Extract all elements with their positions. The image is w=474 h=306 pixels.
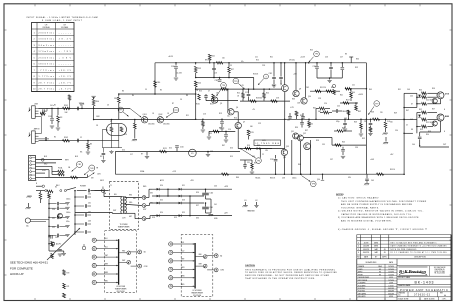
ground above R104 bbox=[91, 95, 95, 97]
resistor R132 bbox=[417, 112, 421, 114]
wire y145.1 row bbox=[332, 144, 366, 146]
wire top rail V+ bbox=[155, 62, 366, 64]
svg-text:HOOK-UP: HOOK-UP bbox=[10, 272, 24, 276]
svg-text:TP1: TP1 bbox=[119, 110, 122, 112]
tube V1 center rod bbox=[118, 124, 120, 136]
wire left rail drop bbox=[154, 63, 156, 94]
capacitor C111 bbox=[219, 78, 221, 80]
diode D4 bbox=[157, 214, 160, 217]
resistor R117 bbox=[212, 94, 215, 100]
wire sub-rail y78 bbox=[317, 77, 342, 79]
below bus cap C152 bbox=[301, 119, 303, 122]
taps on x75 bbox=[74, 196, 76, 198]
input cap C2 inline bbox=[76, 139, 78, 143]
cap taps on x49 bbox=[48, 203, 50, 205]
wire main bus AB bbox=[94, 119, 196, 121]
wire J1 pin4 down bbox=[39, 116, 42, 118]
wire node row y94 bbox=[119, 93, 196, 95]
diode D6 bbox=[179, 195, 182, 198]
resistor R116 bbox=[198, 94, 201, 100]
wire y137.5 to right bbox=[303, 137, 332, 139]
capacitor C114 on bus bbox=[221, 119, 223, 121]
speaker block A jack 5 bbox=[92, 272, 96, 276]
bus res pair R161 bbox=[319, 107, 325, 110]
wire rail2 drop bbox=[253, 78, 255, 90]
wire y133.3 stub bbox=[404, 132, 413, 134]
test point TP10 bbox=[264, 74, 269, 79]
resistor R120 inline bbox=[335, 144, 342, 147]
wire J1 to Q101 arrow bbox=[94, 108, 130, 110]
resistor chain y131 row bbox=[213, 130, 219, 133]
resistor R129 bbox=[422, 92, 427, 95]
tube V1 element 2 bbox=[120, 127, 123, 132]
svg-text:TP3: TP3 bbox=[234, 81, 237, 83]
capacitor C112b bbox=[280, 63, 282, 77]
capacitor C130 bbox=[87, 189, 89, 193]
resistor R119 bbox=[247, 130, 250, 136]
test point TP4 bbox=[221, 83, 227, 89]
svg-text:3: 3 bbox=[266, 76, 267, 78]
left cluster res R128 bbox=[345, 88, 351, 91]
fuse resistor pair bbox=[58, 170, 65, 173]
input connector J1 shell marks bbox=[28, 108, 30, 112]
capacitor C127 bbox=[344, 119, 346, 122]
resistor R110 bbox=[154, 81, 157, 88]
relay K1 bbox=[189, 149, 197, 157]
svg-text:6: 6 bbox=[358, 252, 359, 254]
misc bottom-left components bbox=[51, 242, 54, 247]
wire vertical x195.7 bbox=[195, 94, 197, 119]
diode D7 bbox=[179, 202, 182, 205]
resistor R122 inline bus bbox=[222, 173, 229, 176]
svg-text:3: 3 bbox=[358, 242, 359, 244]
resistor R101 bbox=[63, 107, 70, 110]
bus hanging cap C151 bbox=[302, 113, 304, 116]
bus hanging res R163 bbox=[348, 110, 350, 119]
filter capacitor C140 bbox=[205, 189, 207, 192]
svg-text:K1: K1 bbox=[191, 153, 193, 155]
power tap caps bbox=[84, 195, 86, 199]
svg-text:TP5: TP5 bbox=[315, 54, 318, 56]
connector CN1 wires bbox=[36, 159, 63, 161]
svg-text:TP6: TP6 bbox=[257, 160, 260, 162]
tube V1 element 1 bbox=[110, 127, 113, 132]
AC inlet wires bbox=[36, 185, 42, 187]
speaker block A jack 6 bbox=[92, 280, 96, 284]
speaker block B jack 5 bbox=[169, 276, 173, 280]
svg-text:TH1: TH1 bbox=[90, 168, 93, 170]
resistor R154 between rails bbox=[228, 67, 231, 73]
tube V1 right resistor bbox=[134, 120, 136, 124]
speaker block B terminal bar bbox=[194, 243, 196, 289]
test point TP3 bbox=[233, 78, 239, 84]
wire rail2 bbox=[196, 77, 254, 79]
capacitor C116 bbox=[330, 63, 332, 67]
resistor row y91.2 bbox=[310, 90, 340, 92]
transistor Q109 bbox=[281, 149, 287, 155]
wire main bus segment B bbox=[196, 118, 285, 120]
wire y131 stub down bbox=[208, 131, 210, 136]
wire J1 pin1 signal bbox=[39, 107, 94, 109]
capacitor C126 bbox=[243, 164, 247, 166]
resistor R70 bbox=[63, 270, 66, 276]
pilot lamp DS1 bbox=[51, 242, 54, 245]
power switch S1 bbox=[36, 190, 45, 192]
capacitor C101 bbox=[51, 108, 53, 118]
below bus res R164 bbox=[308, 119, 310, 121]
test point TP8 bbox=[311, 181, 317, 187]
svg-text:4: 4 bbox=[34, 51, 35, 53]
speaker block A jack 3 bbox=[92, 255, 96, 259]
ground stub mid bbox=[385, 137, 387, 142]
resistor R104 bbox=[93, 97, 95, 99]
svg-text:TP2: TP2 bbox=[174, 110, 177, 112]
svg-text:D718: D718 bbox=[445, 94, 449, 96]
transformer secondary lead 2 bbox=[125, 204, 142, 205]
resistor R121 inline bbox=[160, 150, 167, 153]
svg-text:4: 4 bbox=[358, 246, 359, 248]
svg-text:CB1: CB1 bbox=[78, 164, 82, 166]
wire x260 stub bbox=[259, 149, 261, 158]
capacitor C1 inline J1 bbox=[42, 109, 44, 113]
svg-text:5: 5 bbox=[358, 249, 359, 251]
wire y131.4 row bbox=[209, 130, 235, 132]
chassis ground stack bbox=[27, 195, 31, 197]
svg-text:Q101: Q101 bbox=[143, 114, 147, 116]
ground below C110 bbox=[174, 77, 178, 79]
svg-text:TP4: TP4 bbox=[222, 85, 225, 87]
svg-text:6: 6 bbox=[34, 64, 35, 66]
transistor Q102 bbox=[157, 117, 163, 123]
left cluster res R127 bbox=[343, 102, 349, 105]
transistor pair Q111 bbox=[297, 135, 303, 141]
revision table bbox=[357, 234, 451, 236]
power transistor Q118 bbox=[437, 114, 444, 121]
diode D8 bbox=[179, 214, 182, 217]
ground below input divider bbox=[56, 127, 60, 129]
AC plug P1 bbox=[25, 218, 30, 223]
transformer T1 core bbox=[122, 196, 124, 214]
x49 tap grounds bbox=[63, 203, 66, 205]
output coupling cap C48 bbox=[419, 132, 421, 136]
svg-text:3: 3 bbox=[34, 45, 35, 47]
wire Q106 emitter bbox=[284, 92, 286, 120]
svg-text:7: 7 bbox=[34, 70, 35, 72]
wire Q106 chain down bbox=[284, 119, 286, 149]
resistor R158 bbox=[337, 130, 343, 133]
wire y100.6 row bbox=[206, 100, 238, 102]
resistor R151 inline bbox=[271, 100, 278, 103]
speaker block B jack 6 bbox=[169, 284, 173, 288]
resistor R71 bbox=[63, 283, 66, 289]
capacitor C117 bbox=[341, 63, 343, 67]
input connector J1 bbox=[32, 106, 36, 119]
diode D2 bbox=[157, 195, 160, 198]
resistor R126 bbox=[385, 119, 387, 121]
speaker block B jack 2 bbox=[169, 250, 173, 254]
bridge inner wires bbox=[158, 195, 204, 197]
svg-text:Q102: Q102 bbox=[158, 114, 162, 116]
wire Q105 down bbox=[237, 129, 239, 149]
bus hanging cap C150 bbox=[289, 113, 291, 116]
wire Q104 connections bbox=[227, 109, 229, 112]
wire rail x75 vertical bbox=[74, 191, 76, 235]
resistor R106 above tube bbox=[118, 94, 120, 97]
resistor R133 bbox=[422, 118, 427, 121]
diode D5 bbox=[179, 188, 182, 191]
wire x404 vertical bbox=[403, 93, 405, 174]
circuit ground stub bbox=[322, 174, 324, 179]
ground K1 bbox=[207, 152, 209, 154]
tube V1 top stub bbox=[111, 120, 113, 127]
resistor R102 bbox=[63, 139, 70, 142]
callout arrow bbox=[47, 228, 80, 260]
ground G1 bbox=[50, 125, 54, 127]
resistor R112 inline bbox=[216, 62, 223, 65]
output stage top group bbox=[416, 93, 418, 107]
ground terminal pair A bbox=[245, 202, 247, 205]
jack symbol bbox=[41, 158, 44, 161]
bus hanging res R160 bbox=[295, 111, 298, 116]
title block right grid bbox=[397, 265, 451, 267]
wire main lower bus bbox=[115, 173, 404, 175]
capacitor C123 bbox=[248, 89, 250, 93]
wire x404 top corner bbox=[404, 92, 417, 94]
wire J2 pin down join bbox=[40, 128, 42, 134]
resistor R156 bbox=[251, 163, 254, 169]
power output labels bbox=[204, 188, 232, 190]
capacitor C118 polarized bbox=[275, 155, 277, 159]
transistor Q104 bbox=[228, 109, 234, 115]
secondary connector 2 bbox=[142, 204, 146, 208]
resistor R118 bbox=[202, 119, 204, 120]
resistor R113 bbox=[195, 63, 197, 65]
input cap C1 inline bbox=[76, 107, 78, 111]
capacitor C125 bbox=[225, 131, 227, 134]
resistor R114 bbox=[194, 81, 197, 87]
resistor R142 bbox=[48, 194, 51, 199]
transistor Q108 bbox=[305, 63, 307, 98]
resistor R72 bbox=[63, 293, 66, 298]
wires connectors to bridge bbox=[146, 197, 149, 199]
transformer primary leads bbox=[95, 190, 105, 192]
IC box U101 bbox=[254, 140, 281, 145]
terminal post bbox=[350, 57, 352, 63]
transistor Q107 bbox=[295, 63, 297, 90]
svg-text:SEE TECH DWG #16-424-51: SEE TECH DWG #16-424-51 bbox=[10, 261, 48, 265]
transistor Q106 bbox=[284, 63, 286, 85]
svg-text:R101: R101 bbox=[64, 105, 68, 107]
speaker block B output terminals bbox=[207, 255, 214, 257]
speaker block B jack 4 bbox=[169, 267, 173, 271]
resistor R123 inline bus right bbox=[377, 173, 384, 176]
svg-text:1: 1 bbox=[34, 32, 35, 34]
diode D11 inline bbox=[244, 148, 272, 150]
capacitor C2 inline J2 bbox=[44, 137, 46, 141]
transformer T1 secondary coil bbox=[125, 197, 127, 200]
input resistor R3 bbox=[87, 144, 90, 149]
resistor small J1 bbox=[40, 113, 45, 116]
wire bus left turn up bbox=[114, 152, 116, 175]
resistor R130 bbox=[417, 96, 421, 98]
test point TP7 bbox=[374, 101, 380, 107]
speaker block A jack 1 bbox=[92, 238, 96, 242]
speaker block A jack 2 bbox=[92, 247, 96, 251]
speaker block B jack 3 bbox=[169, 259, 173, 263]
speaker block B right taps bbox=[195, 256, 204, 258]
ground below sub-rail bbox=[329, 78, 331, 80]
wire Q109 down bbox=[283, 156, 285, 175]
transistor Q115 driver bbox=[432, 98, 437, 103]
filter capacitor C141 bbox=[205, 203, 207, 207]
contact arm bbox=[86, 175, 88, 178]
rectifier wires bbox=[152, 188, 204, 190]
resistor R152 bbox=[242, 93, 245, 99]
wire output y147 bbox=[420, 146, 449, 148]
wire x49 to ground bbox=[49, 250, 64, 252]
test point TP1 bbox=[118, 107, 123, 112]
test point TP5 bbox=[314, 51, 320, 57]
wire input bus vertical bbox=[93, 108, 95, 119]
input connector J2 shell marks bbox=[28, 133, 30, 137]
transformer primary return lead bbox=[75, 211, 112, 213]
capacitor C113 bbox=[204, 95, 208, 97]
resistor R134 bbox=[417, 126, 421, 128]
wire x310 drop bbox=[310, 140, 312, 174]
wire x227.9 vertical bbox=[227, 89, 229, 109]
tube V1 bottom stubs bbox=[111, 132, 113, 148]
transistor Q101 bbox=[141, 117, 147, 123]
capacitor C115 bbox=[316, 63, 318, 66]
secondary connector 3 bbox=[142, 217, 146, 221]
wire bottom group emitter bbox=[440, 121, 442, 132]
capacitor C121 bbox=[370, 119, 372, 122]
ground filter caps bbox=[206, 198, 212, 200]
transistor Q117 driver bbox=[432, 121, 437, 126]
diode D3 bbox=[157, 202, 160, 205]
resistor R103 bbox=[57, 108, 59, 115]
diode D1 bbox=[157, 188, 160, 191]
wire row y177.4 bbox=[45, 176, 87, 178]
capacitor C110 bbox=[175, 63, 177, 66]
resistor R125 bbox=[369, 127, 372, 132]
svg-text:R102: R102 bbox=[64, 137, 68, 139]
resistor R153 bbox=[263, 93, 266, 99]
fuse F1 bbox=[101, 189, 105, 193]
resistor R155 inline bbox=[245, 147, 251, 150]
thermal switch TH1 bbox=[89, 165, 95, 171]
connector CN1 bbox=[29, 156, 36, 181]
resistor R124 inline bbox=[373, 118, 380, 121]
secondary connector 1 bbox=[142, 196, 146, 200]
speaker block A right taps bbox=[119, 252, 128, 254]
circuit breaker CB1 bbox=[76, 161, 82, 167]
test point TP2 bbox=[173, 107, 179, 113]
transistor Q103 bbox=[212, 97, 218, 103]
svg-text:TP7: TP7 bbox=[375, 103, 378, 105]
wire pair drops bbox=[291, 140, 293, 174]
cluster left components bbox=[360, 123, 363, 129]
measurement table TB1 bbox=[32, 23, 75, 92]
diode D6 bias bbox=[418, 115, 421, 118]
svg-text:TP8: TP8 bbox=[312, 184, 315, 186]
title block signature rows bbox=[357, 263, 397, 265]
tube V1 envelope bbox=[107, 124, 127, 136]
wire right rail corner drop bbox=[365, 63, 367, 174]
speaker block B dashed box bbox=[181, 235, 213, 297]
ground terminal pair B bbox=[256, 202, 258, 205]
bus res pair R162 bbox=[323, 111, 329, 114]
capacitor C120 bbox=[176, 148, 178, 152]
wire y101 row bbox=[240, 100, 290, 102]
svg-text:DESCRIPTION: DESCRIPTION bbox=[414, 257, 426, 259]
svg-text:FOR COMPLETE: FOR COMPLETE bbox=[10, 266, 33, 270]
speaker block A dashed box bbox=[105, 231, 137, 293]
wire top group emitter bbox=[440, 99, 442, 104]
transistor Q105 bbox=[235, 122, 241, 128]
left cluster cap bbox=[335, 109, 337, 113]
wire rail x49 vertical bbox=[48, 199, 50, 251]
capacitor C124 between rails bbox=[212, 67, 216, 69]
capacitor C64 bbox=[50, 235, 52, 239]
speaker block A output terminals bbox=[131, 251, 138, 253]
wire main bus right half bbox=[285, 118, 404, 120]
speaker block A terminal bar bbox=[118, 239, 120, 285]
power transformer T1 dashed box bbox=[110, 181, 139, 229]
capacitor below tube bbox=[102, 148, 104, 153]
resistor R107 above J1 wire bbox=[68, 95, 71, 101]
resistor R115 inline bbox=[221, 88, 228, 91]
tube V1 left lead bbox=[102, 129, 106, 131]
resistor R150 inline bbox=[250, 100, 257, 103]
resistor R131 bbox=[417, 103, 421, 105]
diode D5 bias bbox=[418, 95, 421, 98]
svg-text:5: 5 bbox=[34, 57, 35, 59]
wire y148.5 row bbox=[238, 148, 284, 150]
resistor R140 inline bbox=[71, 176, 78, 179]
svg-text:9: 9 bbox=[34, 82, 35, 84]
resistor R157 right mid bbox=[350, 92, 353, 98]
ground below C45 bbox=[365, 183, 369, 185]
small transistor Q120 bbox=[58, 213, 63, 218]
test point TP6 bbox=[256, 158, 262, 164]
wire rail3 bbox=[196, 88, 282, 90]
svg-text:2: 2 bbox=[34, 39, 35, 41]
transformer secondary lead 1 bbox=[125, 197, 142, 199]
capacitor C112 bbox=[273, 63, 275, 77]
wire below tube bbox=[102, 147, 122, 149]
ground mid G3 bbox=[146, 152, 148, 156]
wire J2 signal bbox=[39, 140, 119, 142]
transistor pair Q110 bbox=[293, 133, 299, 139]
input connector J2 bbox=[32, 131, 36, 144]
power indicator circle bbox=[82, 246, 86, 250]
output capacitor C45 below bus bbox=[366, 174, 368, 178]
svg-text:B688: B688 bbox=[445, 116, 449, 118]
resistor R141 bbox=[39, 193, 42, 200]
transformer secondary lead 3 bbox=[125, 212, 135, 214]
output stage bottom group bbox=[416, 113, 418, 134]
speaker block B jack 1 bbox=[169, 242, 173, 246]
wire y160 row short bbox=[240, 159, 252, 161]
capacitor C119 bbox=[342, 147, 344, 149]
chassis ground x82 bbox=[81, 105, 83, 108]
wire y88.8 left stub bbox=[345, 88, 366, 90]
left cluster small bits bbox=[333, 90, 336, 95]
speaker block A jack 4 bbox=[92, 263, 96, 267]
svg-text:8: 8 bbox=[34, 76, 35, 78]
title block outline bbox=[356, 259, 358, 301]
